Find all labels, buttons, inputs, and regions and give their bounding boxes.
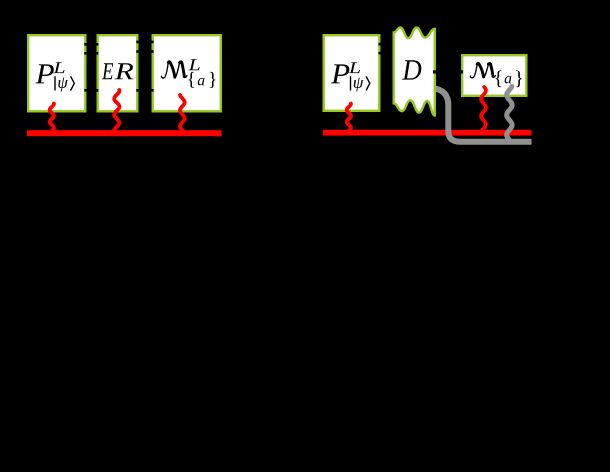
box P^L_|psi> (right, state preparation): [324, 35, 380, 111]
gray squiggle: M box to gray wire (right): [507, 87, 512, 141]
red squiggle: M box to register (right): [481, 87, 486, 133]
wire stub 3 between ER and M boxes: [136, 89, 153, 92]
red squiggle: P box to register (left): [50, 104, 54, 132]
wire: right classical register (red line): [323, 130, 532, 136]
wire stub 1 between ER and M boxes: [136, 41, 153, 44]
wire stub between D and M (right): [433, 70, 463, 73]
red squiggle: M box to register (left): [180, 95, 185, 132]
wire stub 1 between P and D (right): [379, 43, 392, 46]
decoder D (torn-edge shape): [394, 27, 435, 115]
box P^L_|psi> (left, state preparation): [28, 35, 85, 111]
wire: left classical register (red line): [27, 130, 222, 136]
wire stub 2 between P and ER boxes: [84, 52, 98, 55]
box ER (left, error/recovery): [98, 35, 138, 111]
wire stub 2 between P and D (right): [379, 52, 392, 55]
gray wire: quantum memory from D, down and right: [433, 88, 532, 142]
red squiggle: ER box to register (left): [114, 90, 119, 132]
box M_{a} (right, measurement): [462, 55, 526, 96]
wire stub 2 between ER and M boxes: [136, 50, 153, 53]
wire stub 1 between P and ER boxes: [84, 43, 98, 46]
box M^L_{a} (left, measurement): [153, 35, 221, 111]
red squiggle: P box to register (right): [347, 104, 351, 132]
wire stub 3 between P and ER boxes: [84, 89, 98, 92]
